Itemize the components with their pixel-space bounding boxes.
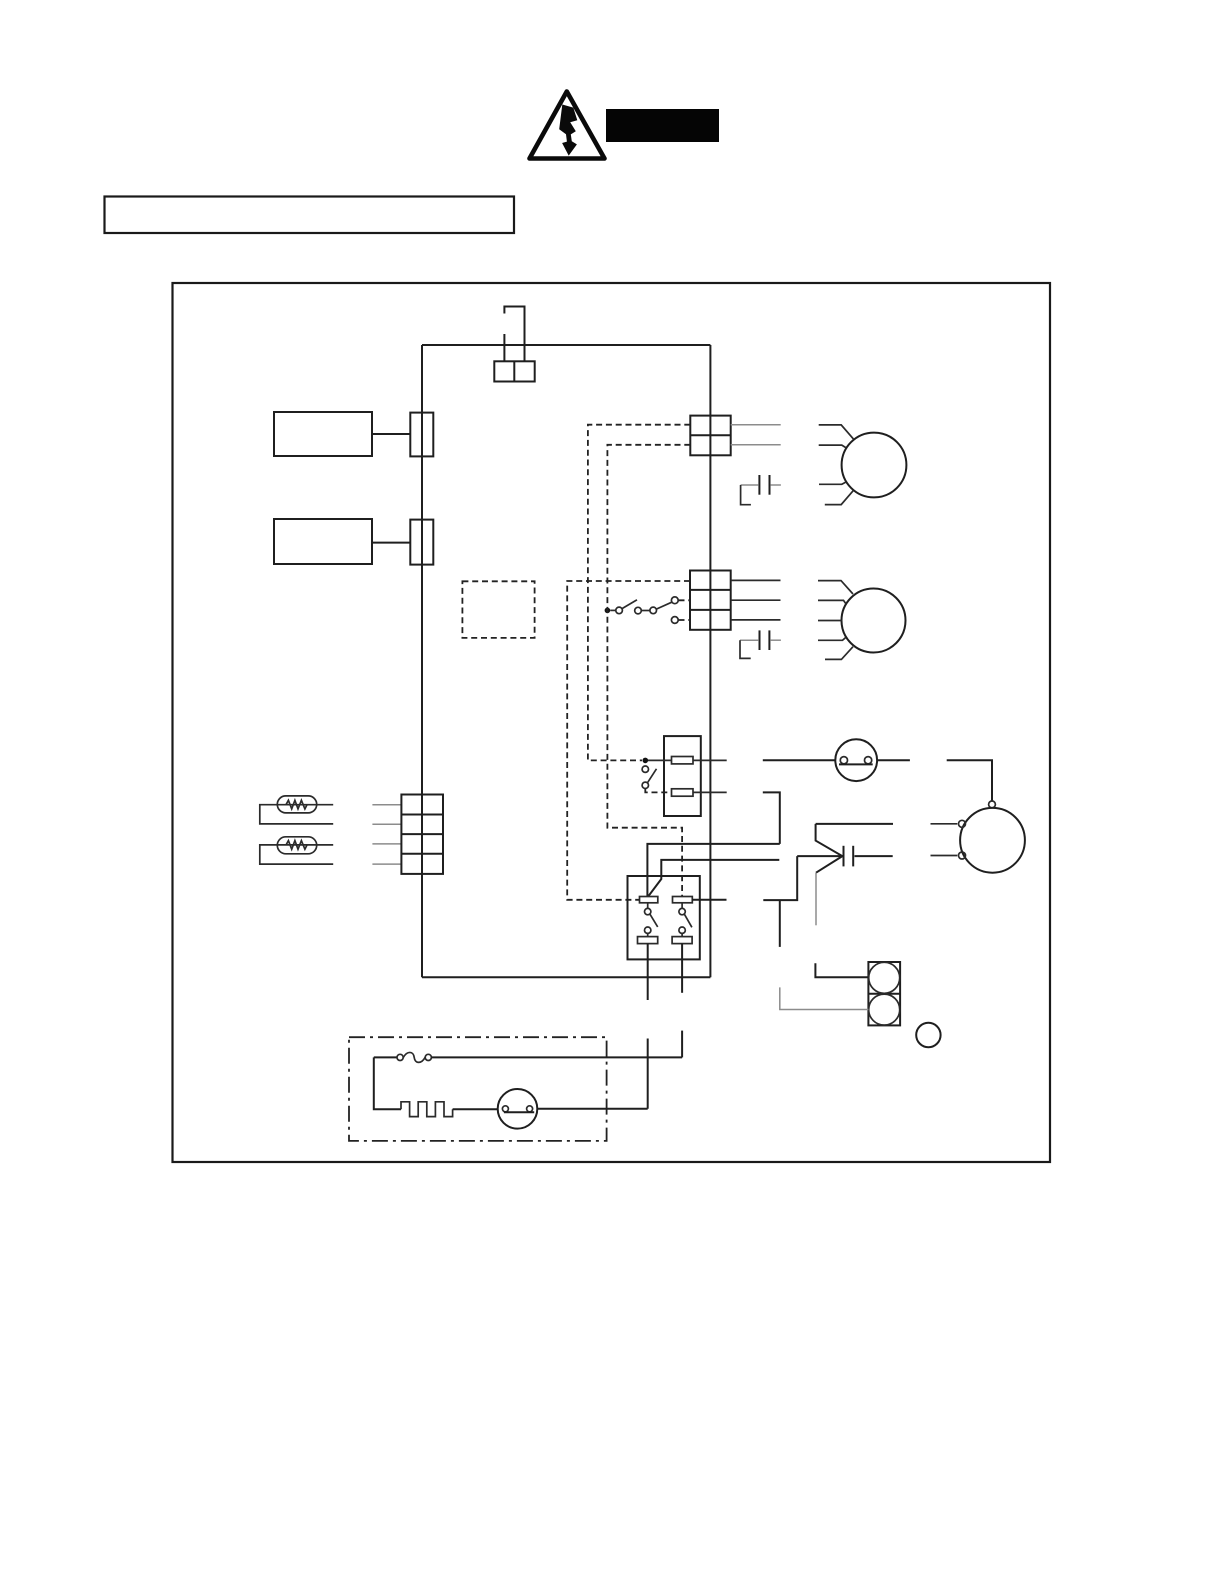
dashed control line CN-A pin1 to junction dot: [588, 425, 690, 761]
door switch contacts: [642, 766, 671, 792]
indicator circle: [916, 1023, 940, 1047]
connector CN-A 2x2: [690, 416, 730, 456]
wire fuse B to relay feed corner: [763, 792, 780, 844]
wire fuse A output: [693, 759, 727, 761]
heater 1: [260, 796, 333, 824]
title box (empty): [105, 197, 515, 234]
selector switch chain: [605, 597, 690, 624]
fan motor 2: [818, 581, 906, 660]
control board rectangle: [422, 345, 710, 977]
wire thermostat to right: [877, 759, 910, 761]
wire relay RY1 blade feed: [649, 860, 780, 896]
power plug: [498, 1089, 538, 1129]
wire to motor lower terminal: [931, 855, 958, 857]
key unit box 1: [274, 412, 433, 456]
wire relay RY1 feed: [647, 844, 779, 897]
connector CN-B 2x3: [690, 571, 731, 630]
wire junction dot to fuse A: [648, 759, 672, 761]
dashed control line CN-B pin1 to relay RY1 coil: [567, 581, 690, 900]
wire to turntable motor: [947, 760, 992, 801]
wire relay RY2 output down (lower): [681, 1031, 683, 1058]
warning triangle symbol: [530, 92, 605, 159]
schematic outer frame: [173, 283, 1051, 1162]
fuse: [374, 1052, 682, 1062]
key unit box 2: [274, 519, 433, 565]
buzzer / transformer block: [780, 900, 900, 1026]
thermal cutout two-terminal block: [494, 361, 534, 381]
lightning bolt: [559, 105, 577, 156]
wire relay RY2 to triac gate: [692, 899, 726, 901]
heater stub wires: [372, 805, 401, 864]
heater 2: [260, 837, 333, 864]
thermostat line: [763, 759, 836, 761]
dashed component placeholder box: [462, 581, 534, 638]
wire plug to relay: [537, 1108, 647, 1110]
thermal cutout hook wires: [504, 307, 524, 362]
turntable motor: [959, 801, 1025, 873]
capacitor C2: [740, 630, 781, 658]
capacitor C1: [741, 475, 781, 505]
wire relay RY1 output down (lower): [647, 1039, 649, 1109]
wire to motor upper terminal: [931, 823, 958, 825]
thermostat: [835, 739, 877, 781]
wire from fuse B: [693, 791, 727, 793]
black label bar (redacted WARNING text): [606, 109, 719, 142]
terminal connector chevron: [763, 824, 893, 925]
junction dot: [643, 758, 649, 764]
connector CN-C 2x4: [401, 795, 443, 874]
wires from CN-A: [731, 424, 781, 426]
power supply dash-dot box: [349, 1037, 607, 1141]
wire relay RY1 output down (upper): [647, 944, 649, 1000]
relay unit box: [628, 876, 700, 959]
fuse unit box: [664, 736, 701, 816]
wires from CN-B: [731, 579, 781, 581]
wire relay RY2 output down (upper): [681, 944, 683, 993]
fan motor 1: [819, 425, 907, 505]
dashed control line CN-A pin2 to relay RY2 coil: [607, 445, 690, 897]
heater coil element: [374, 1057, 498, 1116]
